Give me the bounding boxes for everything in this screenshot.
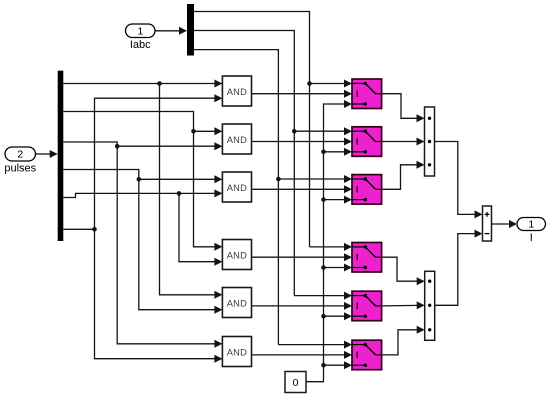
wire AND5 out to switch5 control bbox=[252, 302, 353, 310]
switch SW5 bbox=[352, 291, 382, 321]
wire Ia to switch4 in1 bbox=[310, 243, 353, 251]
junction p3 bbox=[115, 144, 120, 149]
wire zero branch to switch6 in3 bbox=[324, 361, 353, 369]
junction p1 bbox=[157, 81, 162, 86]
mux block M2 bbox=[425, 271, 435, 340]
wire p2 branch to AND2 in1 bbox=[194, 127, 223, 135]
wire AND6 out to switch6 control bbox=[252, 351, 353, 359]
junction p4 bbox=[137, 177, 142, 182]
sum block bbox=[483, 206, 492, 241]
svg-text:AND: AND bbox=[227, 135, 247, 145]
AND gate U1 bbox=[222, 76, 251, 106]
wire Ic to switch6 in1 bbox=[278, 341, 352, 349]
switch SW6 bbox=[352, 340, 382, 370]
wire p1 to AND1 in1 bbox=[63, 80, 222, 88]
switch SW2 bbox=[352, 127, 382, 157]
wire Ic branch to switch3 in1 bbox=[278, 175, 352, 183]
wire p6 from demux2 bbox=[63, 228, 94, 230]
wire Ib to switch5 in1 bbox=[294, 292, 352, 300]
svg-text:AND: AND bbox=[227, 347, 247, 357]
wire Ib branch to switch2 in1 bbox=[294, 127, 352, 135]
junction p5 bbox=[177, 191, 182, 196]
svg-text:AND: AND bbox=[227, 250, 247, 260]
wire switch1 out to mux1 in1 bbox=[382, 94, 425, 123]
wire Iabc to demux1 bbox=[155, 27, 187, 35]
wire p1 down to AND5 in1 bbox=[160, 84, 223, 299]
junction zero branch 5 bbox=[321, 314, 326, 319]
wire p5 jog to AND3 in2 bbox=[63, 189, 222, 197]
wire AND1 out to switch1 control bbox=[252, 90, 353, 98]
AND gate U2 bbox=[222, 124, 251, 154]
wire AND2 out to switch2 control bbox=[252, 138, 353, 146]
wire Ic: demux1 out3 down corridor bbox=[194, 50, 278, 345]
junction zero branch 6 bbox=[321, 363, 326, 368]
junction Ib branch bbox=[292, 129, 297, 134]
demux2 bar bbox=[58, 71, 64, 241]
svg-text:I: I bbox=[530, 232, 533, 244]
svg-text:AND: AND bbox=[227, 87, 247, 97]
wire p5 down to AND4 in2 bbox=[179, 193, 222, 265]
wire zero branch to switch2 in3 bbox=[324, 148, 353, 156]
svg-text:2: 2 bbox=[17, 149, 23, 161]
wire p6 down to AND6 in2 bbox=[95, 229, 223, 362]
outport 1 I bbox=[517, 218, 546, 245]
wire p2 down to AND4 in1 bbox=[63, 112, 222, 251]
switch SW1 bbox=[352, 79, 382, 109]
AND gate U4 bbox=[222, 240, 251, 270]
wire p6 up to AND1 in2 bbox=[95, 94, 223, 229]
demux1 bar bbox=[187, 4, 194, 56]
junction zero branch 4 bbox=[321, 265, 326, 270]
svg-text:AND: AND bbox=[227, 183, 247, 193]
AND gate U5 bbox=[222, 288, 251, 318]
mux block M1 bbox=[425, 107, 435, 176]
junction Ic branch bbox=[276, 177, 281, 182]
inport 2 pulses bbox=[4, 147, 36, 175]
wire switch3 out to mux1 in3 bbox=[382, 161, 425, 190]
svg-text:1: 1 bbox=[528, 219, 534, 231]
wire switch5 out to mux2 in2 bbox=[382, 301, 425, 309]
wire Ia branch to switch1 in1 bbox=[310, 80, 353, 88]
wire mux2 out to sum minus bbox=[435, 230, 483, 306]
svg-text:0: 0 bbox=[293, 377, 299, 389]
svg-text:Iabc: Iabc bbox=[130, 39, 151, 51]
wire zero branch to switch3 in3 bbox=[324, 196, 353, 204]
wire p3 down to AND6 in1 bbox=[63, 142, 222, 348]
wire AND3 out to switch3 control bbox=[252, 185, 353, 193]
wire zero branch to switch5 in3 bbox=[324, 312, 353, 320]
wire zero up to switch1 in3 bbox=[306, 100, 352, 382]
inport 1 Iabc bbox=[126, 24, 156, 51]
wire switch2 out to mux1 in2 bbox=[382, 138, 425, 146]
wire AND4 out to switch4 control bbox=[252, 253, 353, 261]
wire p4 down to AND5 in2 bbox=[63, 170, 222, 314]
AND gate U3 bbox=[222, 172, 251, 202]
svg-text:1: 1 bbox=[137, 25, 143, 37]
wire p4 branch to AND3 in1 bbox=[139, 175, 223, 183]
junction zero branch 3 bbox=[321, 197, 326, 202]
wire zero branch to switch4 in3 bbox=[324, 264, 353, 272]
svg-text:pulses: pulses bbox=[4, 163, 36, 175]
wire p3 branch to AND2 in2 bbox=[117, 142, 222, 150]
switch SW4 bbox=[352, 243, 382, 273]
junction zero branch 2 bbox=[321, 150, 326, 155]
switch SW3 bbox=[352, 175, 382, 205]
constant block 0 bbox=[285, 372, 306, 393]
wire switch6 out to mux2 in3 bbox=[382, 326, 425, 355]
wire Ia: demux1 out1 down right corridor bbox=[194, 12, 310, 247]
AND gate U6 bbox=[222, 337, 251, 367]
wire Ib: demux1 out2 down corridor bbox=[194, 31, 294, 296]
wire sum to outport bbox=[492, 220, 518, 228]
junction Ia branch bbox=[307, 81, 312, 86]
junction p6 bbox=[92, 227, 97, 232]
junction p2 bbox=[191, 129, 196, 134]
wire switch4 out to mux2 in1 bbox=[382, 257, 425, 285]
wire mux1 out to sum plus bbox=[435, 142, 483, 219]
wire pulses to demux2 bbox=[36, 150, 58, 158]
svg-text:AND: AND bbox=[227, 298, 247, 308]
